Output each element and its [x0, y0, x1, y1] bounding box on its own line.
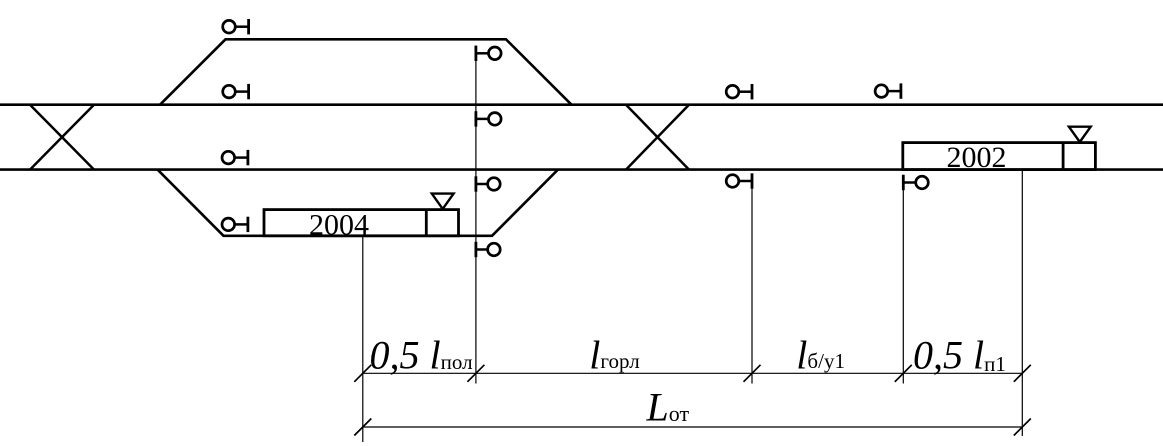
svg-text:2004: 2004: [309, 209, 369, 242]
locomotive flag triangle on 2002: [1069, 127, 1091, 142]
signal L1 above top siding: [223, 19, 249, 34]
svg-text:0,5 lп1: 0,5 lп1: [913, 332, 1006, 377]
extension line V5 at middle of 2002: [1021, 170, 1023, 436]
siding track 4 (bottom loop): [158, 170, 559, 236]
train box 2002 divider: [1062, 143, 1065, 170]
crossover X1 left, leg a: [30, 105, 94, 170]
main track I (upper main line): [0, 103, 1163, 106]
signal L7 above main track I far right: [875, 83, 901, 98]
dimension tick slash at D1 x=476: [467, 365, 484, 382]
signal R4 below bottom siding: [476, 242, 500, 257]
train box 2004 on bottom siding: [264, 210, 459, 236]
signal L3 above main track II: [222, 150, 248, 165]
svg-text:0,5 lпол: 0,5 lпол: [370, 332, 473, 377]
siding track 3 (top loop): [160, 39, 572, 104]
extension line V2 at right signals: [475, 46, 477, 384]
signal L5 above main track I right of X2: [726, 84, 752, 99]
extension line V1 at middle of 2004: [362, 236, 364, 442]
signal R3 below main track II: [476, 176, 500, 191]
dimension tick slash at D1 x=1022: [1014, 365, 1031, 382]
main track II (lower main line): [0, 168, 1163, 171]
overall dimension line D2: [363, 426, 1023, 428]
train box 2004 divider: [425, 210, 428, 236]
signal L4 above bottom siding: [222, 217, 248, 232]
dimension chain line D1: [363, 372, 1023, 374]
locomotive flag triangle on 2004: [432, 194, 454, 209]
signal R5 below main track II far right: [903, 175, 928, 190]
crossover X2 middle, leg b: [626, 105, 689, 170]
signal R2 below main track I: [476, 111, 501, 126]
dimension tick slash at D1 x=363: [354, 365, 371, 382]
crossover X1 left, leg b: [30, 105, 94, 170]
signal L6 below main track II right of X2: [726, 173, 752, 188]
svg-text:2002: 2002: [947, 141, 1007, 174]
svg-text:lб/у1: lб/у1: [796, 332, 845, 377]
extension line V3: [751, 174, 753, 384]
extension line V4: [902, 175, 904, 384]
crossover X2 middle, leg a: [626, 105, 689, 170]
dimension tick slash at D1 x=903: [895, 365, 912, 382]
svg-text:Lот: Lот: [646, 385, 690, 430]
dimension tick slash at D1 x=752: [744, 365, 761, 382]
svg-text:lгорл: lгорл: [589, 332, 639, 377]
train box 2002 on main track II: [903, 143, 1096, 170]
dimension tick slash at D2 x=363: [354, 419, 371, 436]
signal L2 above main track I: [223, 84, 249, 99]
dimension tick slash at D2 x=1022: [1014, 419, 1031, 436]
signal R1 below top siding: [476, 46, 501, 61]
